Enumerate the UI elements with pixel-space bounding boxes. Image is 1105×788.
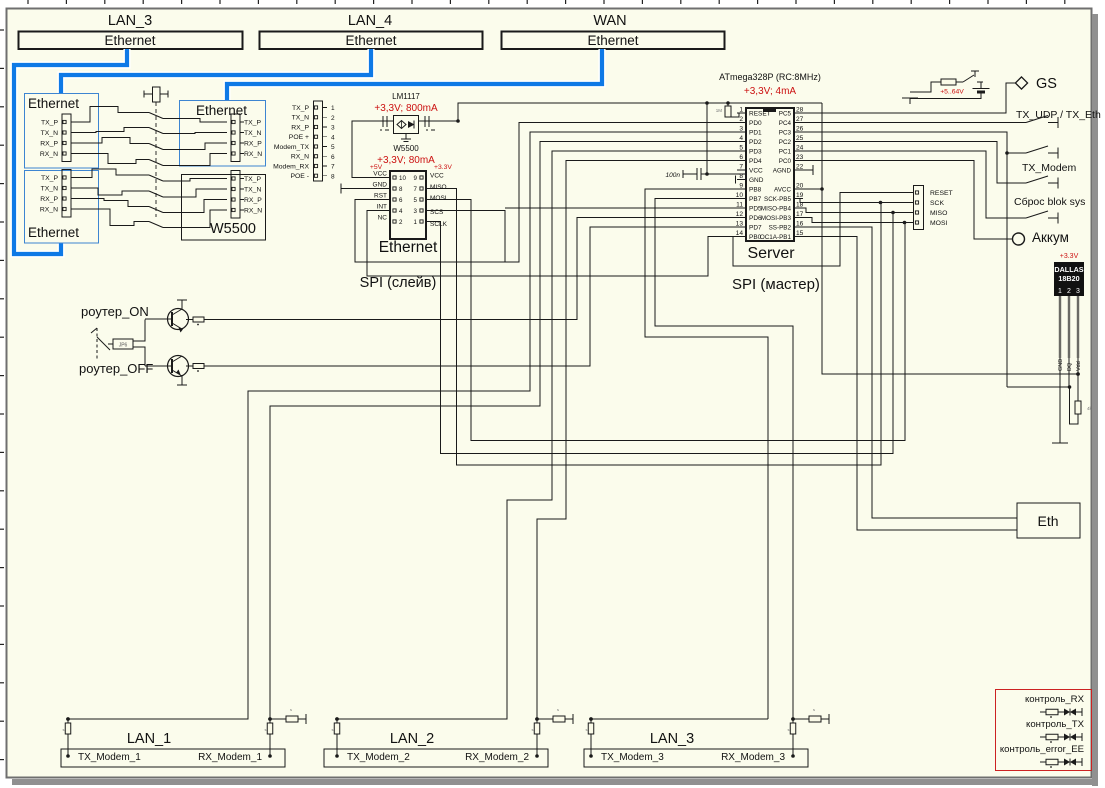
svg-text:6: 6 [739, 154, 743, 161]
node LAN_3 Ethernet box [19, 32, 243, 50]
svg-text:RX_P: RX_P [291, 124, 309, 131]
wire jumper to base Q2 [133, 347, 145, 366]
resistor R6 [186, 365, 193, 367]
svg-text:TX_Modem_1: TX_Modem_1 [78, 752, 141, 763]
wire regulator input from module VCC +5V [352, 121, 394, 178]
svg-text:9: 9 [414, 175, 418, 182]
wire ISP MOSI [794, 218, 914, 223]
wire Dallas DQ net [1068, 358, 1070, 387]
svg-text:MISO-PB4: MISO-PB4 [761, 205, 792, 212]
svg-text:WAN: WAN [593, 13, 626, 29]
ground (Dallas) [1052, 442, 1068, 444]
wire PD2 to LAN_1 RX [270, 142, 746, 720]
wire GND pin8 tick [735, 176, 737, 184]
svg-text:5: 5 [739, 145, 743, 152]
svg-text:16: 16 [796, 221, 804, 228]
svg-text:RX_N: RX_N [40, 206, 58, 213]
svg-text:TX_N: TX_N [244, 186, 261, 193]
svg-text:2: 2 [399, 219, 403, 226]
wire PD5 trunk to SCS [505, 207, 746, 209]
resistor R3 reset pullup [727, 103, 729, 106]
svg-text:3: 3 [331, 125, 335, 132]
svg-text:RX_P: RX_P [244, 140, 262, 147]
node Akkum [794, 161, 1012, 240]
node LAN_2 box [324, 749, 548, 767]
svg-text:POE +: POE + [289, 134, 309, 141]
connector J1 Ethernet box [25, 94, 99, 169]
svg-text:TX_N: TX_N [41, 130, 58, 137]
bottom shadow [12, 779, 1098, 785]
svg-text:RX_N: RX_N [244, 207, 262, 214]
svg-text:+3,3V; 4mA: +3,3V; 4mA [744, 86, 796, 97]
svg-text:2: 2 [739, 116, 743, 123]
resistor termination TX LAN_2 [335, 754, 339, 758]
wire +3.3V rail down to VCC/AVCC [706, 103, 708, 174]
svg-text:GND: GND [373, 182, 388, 189]
jumper JP1 box [108, 343, 113, 345]
svg-text:роутер_OFF: роутер_OFF [79, 361, 153, 376]
svg-text:6: 6 [331, 154, 335, 161]
svg-text:13: 13 [736, 221, 744, 228]
svg-text:VCC: VCC [430, 173, 444, 180]
svg-text:5: 5 [414, 197, 418, 204]
svg-text:LAN_2: LAN_2 [390, 731, 434, 747]
wire blue cable LAN_3 to Ethernet connector 2 [14, 49, 127, 254]
switch S4 reset block sys [794, 151, 1026, 218]
right shadow [1092, 14, 1098, 786]
svg-text:5: 5 [331, 144, 335, 151]
resistor termination TX LAN_1 [66, 754, 70, 758]
svg-text:18B20: 18B20 [1058, 274, 1079, 283]
svg-text:24: 24 [796, 145, 804, 152]
svg-text:4: 4 [399, 208, 403, 215]
svg-text:1: 1 [1058, 288, 1062, 295]
battery BT1 [977, 81, 981, 83]
svg-text:25: 25 [796, 135, 804, 142]
svg-text:14: 14 [736, 230, 744, 237]
svg-text:PD3: PD3 [749, 148, 762, 155]
node LAN_4 Ethernet box [260, 32, 483, 50]
svg-text:Modem_RX: Modem_RX [273, 163, 309, 170]
svg-text:контроль_error_EE: контроль_error_EE [1000, 744, 1084, 755]
wire PB7 trunk to LAN_3 RX [655, 199, 793, 720]
wire PD4 to LAN_2 RX [537, 161, 746, 720]
svg-text:TX_Modem_2: TX_Modem_2 [347, 752, 410, 763]
connector J3 Ethernet box [180, 101, 266, 167]
svg-text:LAN_4: LAN_4 [348, 13, 392, 29]
switch S6 router select [96, 328, 98, 360]
svg-text:9: 9 [739, 183, 743, 190]
svg-text:PD4: PD4 [749, 158, 762, 165]
switch S1 TX_UDP/TX_Eth [794, 122, 1026, 124]
svg-text:SPI (слейв): SPI (слейв) [360, 275, 437, 291]
svg-text:s: s [813, 707, 815, 712]
node WAN Ethernet box [502, 32, 725, 50]
svg-text:RX_N: RX_N [291, 154, 309, 161]
svg-text:DQ: DQ [1067, 362, 1073, 371]
svg-text:19: 19 [796, 192, 804, 199]
svg-text:7: 7 [414, 186, 418, 193]
wire crossover nets between J1/J2 and J3/W5500 [75, 107, 149, 123]
svg-text:TX_P: TX_P [244, 119, 261, 126]
svg-text:MISO: MISO [430, 184, 447, 191]
svg-text:JP6: JP6 [119, 343, 128, 349]
svg-text:Ethernet: Ethernet [345, 33, 396, 48]
svg-text:6: 6 [399, 197, 403, 204]
svg-text:W5500: W5500 [393, 144, 419, 153]
svg-text:INT: INT [377, 204, 388, 211]
svg-text:1M: 1M [716, 108, 723, 113]
svg-text:Modem_TX: Modem_TX [274, 144, 310, 151]
wire ISP RESET loop to PB0 [733, 193, 914, 267]
svg-text:8: 8 [399, 186, 403, 193]
sensor U5 DALLAS 18B20 [1054, 262, 1084, 296]
svg-text:Ethernet: Ethernet [28, 225, 79, 240]
connector J2 Ethernet box [25, 171, 99, 244]
module U4 Ethernet (W5500 SPI slave) body [390, 171, 426, 239]
svg-text:+3.3V: +3.3V [434, 164, 452, 171]
module U4 right pins VCC MISO MOSI SCS SCLK [420, 176, 423, 179]
wire module RST loop to PD0 [355, 123, 746, 263]
resistor termination RX LAN_2 [535, 754, 539, 758]
svg-text:26: 26 [796, 126, 804, 133]
svg-text:PD0: PD0 [749, 120, 762, 127]
resistor R4 DQ pullup [1077, 374, 1079, 401]
svg-text:RX_P: RX_P [40, 140, 58, 147]
svg-text:роутер_ON: роутер_ON [81, 304, 149, 319]
svg-text:SPI (мастер): SPI (мастер) [732, 276, 820, 293]
svg-text:RX_Modem_3: RX_Modem_3 [721, 752, 785, 763]
switch S5 (power) [956, 81, 963, 83]
svg-text:10: 10 [399, 175, 406, 182]
svg-text:s: s [586, 727, 588, 732]
svg-text:s: s [290, 707, 292, 712]
regulator U3 body [394, 116, 419, 134]
svg-text:1: 1 [739, 107, 743, 114]
svg-text:RESET: RESET [749, 110, 771, 117]
svg-text:4: 4 [739, 135, 743, 142]
svg-text:PB8: PB8 [749, 186, 762, 193]
IC U1 body [746, 108, 794, 241]
wire module GND stub [341, 188, 390, 190]
svg-text:10: 10 [736, 192, 744, 199]
svg-text:+3.3V: +3.3V [1060, 253, 1079, 260]
svg-text:+3,3V; 80mA: +3,3V; 80mA [377, 155, 435, 166]
wire module SCS tap [426, 211, 505, 263]
svg-text:TX_N: TX_N [244, 130, 261, 137]
wire crossover dashed bus [155, 102, 157, 217]
node Eth box [1017, 503, 1080, 538]
resistor R2 (termination, top of crossover bus) [144, 93, 152, 95]
svg-text:TX_P: TX_P [292, 105, 309, 112]
svg-text:PC5: PC5 [779, 110, 792, 117]
svg-text:TX_P: TX_P [41, 119, 58, 126]
svg-text:8: 8 [331, 173, 335, 180]
wire router_ON to PD6 [204, 218, 746, 320]
svg-text:RX_P: RX_P [244, 197, 262, 204]
wire PD1 to LAN_1 TX [68, 132, 746, 719]
svg-text:11: 11 [736, 202, 743, 209]
connector J2 pins TX_P TX_N RX_P RX_N [62, 170, 71, 218]
svg-text:MISO: MISO [930, 210, 947, 217]
wire module MOSI tap to MOSI-PB3 [426, 200, 905, 441]
svg-text:Ethernet: Ethernet [379, 239, 438, 256]
svg-text:OC1A-PB1: OC1A-PB1 [760, 234, 792, 241]
wire battery loop [910, 82, 941, 92]
svg-text:PC2: PC2 [779, 139, 792, 146]
svg-text:2: 2 [331, 115, 335, 122]
node kontrol box (red) [996, 690, 1092, 771]
svg-text:TX_N: TX_N [41, 185, 58, 192]
U2 W5500 box [182, 175, 266, 241]
svg-text:Сброс blok sys: Сброс blok sys [1014, 196, 1085, 208]
svg-text:TX_P: TX_P [41, 175, 58, 182]
capacitor C1 (input) [382, 116, 384, 127]
svg-text:12: 12 [736, 211, 744, 218]
capacitor C2 (output) [424, 116, 426, 127]
svg-text:DALLAS: DALLAS [1054, 265, 1083, 274]
svg-text:LAN_3: LAN_3 [108, 13, 152, 29]
svg-text:s: s [532, 727, 534, 732]
connector J1 pins TX_P TX_N RX_P RX_N [62, 114, 71, 162]
svg-text:LM1117: LM1117 [392, 92, 420, 101]
wire jumper to base Q1 [133, 320, 145, 342]
svg-text:контроль_TX: контроль_TX [1026, 719, 1085, 730]
svg-text:ATmega328P (RC:8MHz): ATmega328P (RC:8MHz) [719, 72, 821, 82]
svg-text:3: 3 [739, 126, 743, 133]
U2 W5500 pins TX_P TX_N RX_P RX_N [231, 171, 240, 219]
node GS [1015, 77, 1027, 89]
svg-text:s: s [332, 727, 334, 732]
svg-text:4k: 4k [1087, 406, 1093, 411]
svg-text:PD2: PD2 [749, 139, 762, 146]
svg-text:RST: RST [374, 193, 387, 200]
svg-text:s: s [265, 727, 267, 732]
resistor R pullup RX LAN_2 [537, 718, 553, 720]
wire PB8 trunk to LAN_3 TX [645, 189, 768, 719]
svg-text:LAN_1: LAN_1 [127, 731, 171, 747]
resistor R5 [186, 319, 193, 321]
svg-text:7: 7 [739, 164, 743, 171]
svg-text:7: 7 [331, 164, 335, 171]
svg-text:PC1: PC1 [779, 148, 792, 155]
connector J5 ISP (RESET SCK MISO MOSI) [914, 186, 924, 230]
wire +3.3V rail to AVCC and Dallas Vdd [822, 103, 1078, 374]
svg-text:VCC: VCC [373, 171, 387, 178]
svg-text:LAN_3: LAN_3 [650, 731, 694, 747]
wire AGND stub [794, 169, 813, 171]
ground at regulator [405, 134, 407, 140]
svg-text:AVCC: AVCC [774, 186, 791, 193]
svg-text:Ethernet: Ethernet [587, 33, 638, 48]
switch S2 (to TX_Modem net) [794, 132, 1007, 387]
svg-text:20: 20 [796, 183, 804, 190]
svg-text:PC0: PC0 [779, 158, 792, 165]
svg-text:AGND: AGND [773, 167, 792, 174]
svg-text:PC4: PC4 [779, 120, 792, 127]
svg-text:PD1: PD1 [749, 129, 762, 136]
fuse F1 [941, 79, 956, 85]
svg-text:Eth: Eth [1037, 513, 1058, 529]
svg-text:s: s [557, 707, 559, 712]
svg-text:+5..64V: +5..64V [940, 89, 964, 96]
svg-text:1: 1 [331, 105, 335, 112]
switch S3 TX_Modem [794, 142, 1026, 184]
resistor termination RX LAN_3 [791, 754, 795, 758]
svg-text:3: 3 [414, 208, 418, 215]
svg-text:27: 27 [796, 116, 804, 123]
wire ISP MISO [794, 208, 914, 213]
svg-text:17: 17 [796, 211, 804, 218]
svg-text:PB7: PB7 [749, 196, 762, 203]
wire LAN_3 TX horizontal [591, 718, 768, 720]
svg-text:28: 28 [796, 107, 804, 114]
svg-text:TX_P: TX_P [244, 176, 261, 183]
svg-text:1: 1 [414, 219, 418, 226]
ground (battery) [902, 97, 918, 99]
svg-text:GND: GND [1058, 359, 1064, 371]
svg-text:SS-PB2: SS-PB2 [769, 224, 792, 231]
svg-text:MOSI-PB3: MOSI-PB3 [761, 215, 792, 222]
IC U1 pins [737, 112, 746, 114]
svg-text:контроль_RX: контроль_RX [1025, 694, 1085, 705]
svg-text:GS: GS [1036, 76, 1057, 92]
svg-text:NC: NC [378, 215, 388, 222]
svg-text:100n: 100n [666, 172, 681, 179]
resistor termination RX LAN_1 [268, 754, 272, 758]
svg-text:+3,3V; 800mA: +3,3V; 800mA [374, 103, 438, 114]
svg-text:Server: Server [747, 245, 795, 262]
svg-text:3: 3 [1076, 288, 1080, 295]
svg-text:4: 4 [331, 134, 335, 141]
svg-text:s: s [788, 727, 790, 732]
connector J3 pins TX_P TX_N RX_P RX_N [231, 114, 240, 162]
svg-text:GND: GND [749, 177, 764, 184]
resistor R pullup RX LAN_3 [793, 718, 809, 720]
transistor Q1 router ON [168, 309, 189, 330]
svg-text:MOSI: MOSI [930, 220, 947, 227]
svg-text:15: 15 [796, 230, 804, 237]
svg-text:RESET: RESET [930, 190, 953, 197]
connector J4 8-pin (POE splitter) [314, 101, 323, 181]
transistor Q2 router OFF [168, 356, 189, 377]
svg-text:PD7: PD7 [749, 224, 762, 231]
svg-text:SCLK: SCLK [430, 221, 448, 228]
wire module MISO to SCK-PB5 [426, 189, 881, 466]
junctions [66, 717, 70, 721]
svg-text:22: 22 [796, 164, 804, 171]
svg-text:SCK-PB5: SCK-PB5 [764, 196, 791, 203]
resistor R pullup RX LAN_1 [270, 718, 286, 720]
sensor U5 pins GND DQ Vdd [1059, 296, 1062, 358]
wire Eth to OC1A-PB1 (pin15) [794, 237, 1017, 531]
svg-text:TX_Modem: TX_Modem [1022, 162, 1077, 174]
svg-text:RX_N: RX_N [244, 151, 262, 158]
wire ISP SCK [794, 199, 914, 203]
svg-text:s: s [63, 727, 65, 732]
wire PD3 to LAN_2 TX [337, 151, 746, 719]
svg-text:23: 23 [796, 154, 804, 161]
wire module INT to PB0 [367, 211, 746, 277]
node LAN_3 box [584, 749, 808, 767]
svg-text:Ethernet: Ethernet [104, 33, 155, 48]
wire regulator output +3.3V rail [419, 103, 823, 121]
svg-text:TX_N: TX_N [292, 115, 309, 122]
svg-text:Vdd: Vdd [1076, 361, 1082, 371]
wire router_OFF to PD7 [204, 227, 746, 366]
module U4 left pins VCC GND RST INT NC [393, 176, 396, 179]
svg-text:RX_Modem_1: RX_Modem_1 [198, 752, 262, 763]
wire blue cable WAN to Ethernet connector 3 [227, 49, 602, 100]
svg-text:Ethernet: Ethernet [28, 96, 79, 111]
svg-text:TX_Modem_3: TX_Modem_3 [601, 752, 664, 763]
svg-text:RX_N: RX_N [40, 151, 58, 158]
svg-text:VCC: VCC [749, 167, 763, 174]
svg-text:RX_P: RX_P [40, 196, 58, 203]
svg-text:2: 2 [1067, 288, 1071, 295]
svg-text:SCK: SCK [930, 200, 944, 207]
svg-text:RX_Modem_2: RX_Modem_2 [465, 752, 529, 763]
node LAN_1 box [61, 749, 285, 767]
resistor termination TX LAN_3 [589, 754, 593, 758]
wire blue cable LAN_4 to Ethernet connector 1 [61, 49, 371, 93]
svg-text:W5500: W5500 [210, 221, 256, 237]
svg-text:POE -: POE - [290, 173, 309, 180]
svg-text:PC3: PC3 [779, 129, 792, 136]
wire module SCLK to MISO-PB4 [426, 213, 893, 454]
wire PC5 to GS [794, 83, 1015, 113]
wire Dallas GND to ground [1059, 358, 1061, 443]
svg-text:MOSI: MOSI [430, 195, 447, 202]
svg-text:Аккум: Аккум [1032, 230, 1069, 245]
wire Eth to SS-PB2 (pin16) [794, 227, 1017, 518]
wire Dallas Vdd [1077, 358, 1079, 374]
